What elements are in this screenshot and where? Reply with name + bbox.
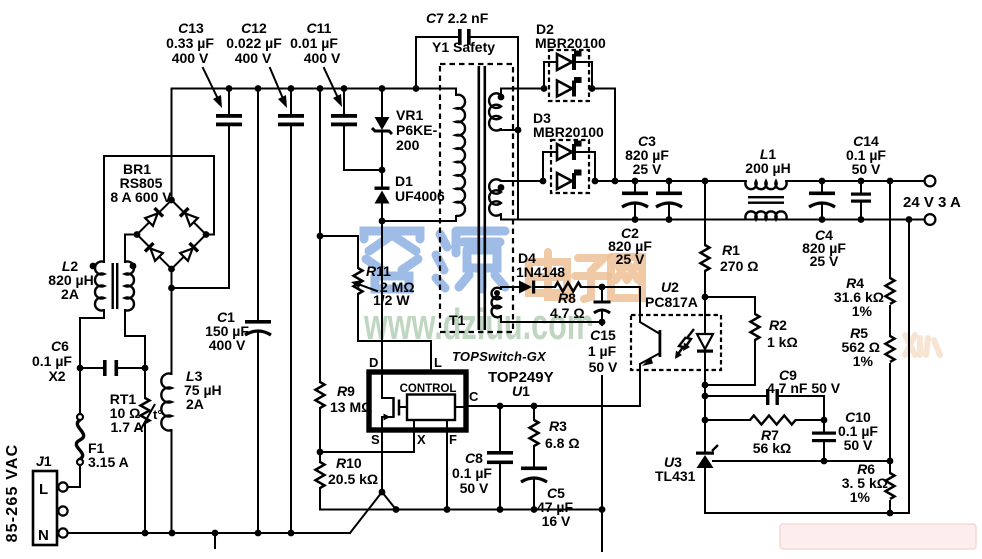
svg-text:C12: C12 [241, 20, 267, 36]
connector J1 [33, 453, 57, 545]
svg-text:PC817A: PC817A [645, 294, 698, 310]
junction bias return [599, 319, 606, 326]
junction clamp mid [379, 167, 386, 174]
rectifier D2 [535, 21, 615, 181]
svg-text:200 µH: 200 µH [745, 160, 790, 176]
wire cathode chain [704, 385, 706, 452]
junction bus C13 [226, 85, 233, 92]
thermistor RT1 [110, 368, 163, 533]
resistor R5 [842, 325, 895, 369]
svg-text:0.33 µF: 0.33 µF [166, 35, 214, 51]
svg-text:C11: C11 [307, 20, 332, 36]
svg-text:R8: R8 [558, 290, 576, 306]
capacitor C11 [290, 20, 382, 170]
svg-text:1.7 A: 1.7 A [111, 419, 144, 435]
svg-text:F: F [449, 432, 457, 447]
junction X tap [317, 449, 324, 456]
terminal circle mid [58, 506, 67, 515]
svg-text:MBR20100: MBR20100 [535, 35, 606, 51]
capacitor C10 [812, 409, 878, 461]
wire N terminal to bottom rail [68, 532, 350, 534]
wire primary bottom [382, 216, 456, 221]
resistor R4 [834, 275, 895, 319]
junction L3 line bottom [169, 530, 176, 537]
svg-text:VR1: VR1 [396, 107, 423, 123]
watermark orange char 电 [529, 252, 569, 297]
svg-text:4.7 Ω: 4.7 Ω [550, 305, 585, 321]
svg-text:400 V: 400 V [235, 50, 272, 66]
junction C10 ref [821, 458, 828, 465]
svg-text:0.022 µF: 0.022 µF [226, 35, 282, 51]
output terminal minus [925, 214, 936, 225]
resistor R6 [842, 461, 895, 505]
junction BR1 minus [168, 285, 175, 292]
svg-text:1N4148: 1N4148 [516, 264, 565, 280]
svg-text:56 kΩ: 56 kΩ [753, 440, 791, 456]
capacitor C4 [802, 178, 846, 269]
transformer bias winding [492, 287, 602, 322]
junction D1 bottom primary return [379, 218, 386, 225]
watermark blue char 容 [364, 231, 420, 289]
svg-text:D1: D1 [395, 173, 413, 189]
junction S rail [393, 506, 400, 513]
junction F rail [444, 506, 451, 513]
wire L terminal to fuse [68, 466, 80, 487]
svg-text:X: X [417, 432, 426, 447]
output terminal plus [925, 176, 936, 187]
opto phototransistor [640, 315, 661, 370]
svg-text:400 V: 400 V [304, 50, 341, 66]
wire drain line [381, 221, 383, 372]
junction C6 left [77, 365, 84, 372]
capacitor C2 [608, 178, 682, 267]
svg-text:C13: C13 [178, 20, 204, 36]
capacitor C5 [521, 446, 573, 529]
svg-text:25 V: 25 V [810, 253, 839, 269]
svg-text:1/2 W: 1/2 W [373, 292, 410, 308]
terminal circle N [58, 528, 67, 537]
svg-text:20.5 kΩ: 20.5 kΩ [328, 471, 378, 487]
svg-text:1%: 1% [850, 489, 871, 505]
junction bus C11 [341, 85, 348, 92]
svg-text:25 V: 25 V [616, 251, 645, 267]
junction S fork [379, 489, 386, 496]
junction divider top [887, 178, 894, 185]
wire return tap down [908, 220, 910, 514]
junction RT1 bottom [142, 530, 149, 537]
svg-text:8 A 600 V: 8 A 600 V [110, 189, 172, 205]
capacitor C13 [166, 20, 242, 126]
junction C7 secondary [515, 127, 522, 134]
shunt regulator U3 TL431 [655, 445, 718, 513]
svg-text:270 Ω: 270 Ω [720, 258, 758, 274]
stub to chassis [214, 533, 216, 548]
transformer core [478, 66, 481, 330]
junction rail C1 [255, 530, 262, 537]
svg-text:0.1 µF: 0.1 µF [452, 465, 492, 481]
resistor R8 [550, 283, 640, 322]
capacitor C14 [846, 133, 886, 223]
bridge rectifier BR1 [110, 161, 209, 272]
svg-text:R9: R9 [337, 383, 355, 399]
resistor R1 [701, 178, 759, 297]
junction C6 right [142, 365, 149, 372]
junction bus clamp [379, 85, 386, 92]
svg-text:50 V: 50 V [589, 359, 618, 375]
svg-text:R11: R11 [366, 263, 391, 279]
svg-text:TL431: TL431 [655, 468, 696, 484]
junction R2 top [702, 294, 709, 301]
wire bias to source rail [601, 322, 603, 510]
svg-text:L: L [39, 481, 48, 498]
watermark orange char 子 [575, 258, 608, 299]
svg-text:50 V: 50 V [460, 480, 489, 496]
watermark orange char 网 [611, 257, 642, 298]
capacitor C1 line [205, 89, 271, 534]
svg-text:P6KE-: P6KE- [396, 122, 438, 138]
wire divider chain [889, 181, 891, 513]
wire fuse to C6 node [79, 368, 81, 413]
svg-text:R3: R3 [549, 418, 567, 434]
svg-text:C8: C8 [465, 450, 483, 466]
wire S pin fork [350, 430, 396, 533]
svg-text:UF4006: UF4006 [395, 188, 445, 204]
junction C15 top [599, 284, 606, 291]
wire output rail [595, 180, 924, 182]
svg-text:50 V: 50 V [844, 437, 873, 453]
transformer primary winding [456, 89, 465, 216]
optocoupler U2 [631, 279, 721, 370]
svg-text:U2: U2 [661, 279, 679, 295]
resistor R11 [320, 236, 431, 341]
wire HV bus [172, 88, 457, 90]
TOPSwitch U1 [369, 372, 466, 430]
svg-text:4.7 nF 50 V: 4.7 nF 50 V [767, 380, 841, 396]
svg-text:L: L [434, 355, 442, 370]
svg-text:2A: 2A [61, 286, 79, 302]
transformer secondary winding upper [489, 89, 544, 131]
wire C pin line [466, 370, 640, 406]
wire line-sense vertical [319, 89, 321, 383]
capacitor C7 [416, 10, 518, 130]
svg-text:U1: U1 [512, 383, 530, 399]
inductor L1 [745, 146, 790, 220]
svg-text:S: S [371, 432, 380, 447]
diode D1 [375, 170, 446, 221]
junction source rail end [599, 506, 606, 513]
svg-text:D: D [369, 355, 378, 370]
resistor R10 [316, 452, 603, 510]
junction R6 bottom [887, 510, 894, 517]
wire L pin [430, 341, 432, 372]
capacitor C9 [705, 367, 841, 420]
watermark blue char 源 [436, 231, 505, 289]
inductor L3 [161, 288, 221, 533]
capacitor C12 [226, 20, 304, 533]
svg-text:TOPSwitch-GX: TOPSwitch-GX [452, 349, 547, 364]
svg-text:25 V: 25 V [633, 161, 662, 177]
terminal circle L [58, 482, 67, 491]
svg-text:C7 2.2 nF: C7 2.2 nF [426, 10, 489, 26]
transformer T1 box [440, 64, 513, 332]
svg-text:C15: C15 [590, 327, 616, 343]
resistor R2 [705, 297, 798, 385]
svg-text:1%: 1% [853, 353, 874, 369]
junction bus C1 [255, 85, 262, 92]
diode D4 [516, 250, 565, 294]
svg-text:400 V: 400 V [209, 337, 246, 353]
svg-text:1 µF: 1 µF [588, 343, 617, 359]
capacitor C3 [622, 133, 669, 223]
junction C9 tap [702, 393, 709, 400]
wire secondary bottom rail [705, 512, 909, 514]
junction bus sense line [317, 85, 324, 92]
svg-text:T1: T1 [449, 312, 466, 328]
opto light arrows [675, 329, 694, 359]
svg-text:400 V: 400 V [172, 50, 209, 66]
capacitor C15 [594, 287, 611, 322]
svg-text:1%: 1% [852, 303, 873, 319]
svg-text:X2: X2 [48, 368, 65, 384]
resistor R9 [316, 382, 373, 452]
watermark pink box bottom right [780, 524, 976, 549]
wire TL431 ref line [713, 460, 890, 462]
junction ref divider [887, 458, 894, 465]
svg-text:13 MΩ: 13 MΩ [330, 399, 372, 415]
inductor L2 common-mode choke [48, 156, 214, 368]
svg-text:Y1 Safety: Y1 Safety [432, 39, 495, 55]
junction R7 C10 [821, 417, 828, 424]
rectifier D3 [533, 110, 604, 193]
svg-text:C: C [469, 389, 479, 404]
capacitor C6 [32, 338, 145, 384]
label C15 [585, 326, 623, 375]
wire BR1 minus down [171, 269, 173, 288]
svg-text:C6: C6 [51, 338, 69, 354]
svg-text:R1: R1 [722, 242, 740, 258]
wire C13 bottom link [172, 127, 230, 288]
resistor R7 [705, 416, 824, 457]
TVS VR1 [372, 89, 438, 154]
svg-text:MBR20100: MBR20100 [533, 124, 604, 140]
junction R7 tap [702, 417, 709, 424]
svg-text:0.01 µF: 0.01 µF [290, 35, 338, 51]
resistor R3 [530, 403, 580, 451]
svg-text:24 V 3 A: 24 V 3 A [903, 194, 961, 211]
svg-text:CONTROL: CONTROL [400, 383, 457, 395]
svg-text:N: N [38, 527, 49, 544]
wire X pin [320, 430, 414, 452]
junction LED cathode [702, 382, 709, 389]
svg-text:50 V: 50 V [852, 161, 881, 177]
svg-text:R10: R10 [336, 455, 362, 471]
svg-text:85-265 VAC: 85-265 VAC [4, 444, 21, 543]
transformer secondary winding lower [489, 179, 924, 219]
svg-text:3.15 A: 3.15 A [88, 454, 129, 470]
watermark orange fragment right [905, 335, 940, 355]
stub below rail [601, 510, 603, 552]
junction D2 output [612, 178, 619, 185]
svg-text:2A: 2A [186, 396, 204, 412]
junction rail C12 [288, 530, 295, 537]
junction R11 tap [317, 233, 324, 240]
svg-text:6.8 Ω: 6.8 Ω [545, 435, 580, 451]
junction stub [212, 530, 219, 537]
svg-text:200: 200 [396, 137, 420, 153]
svg-text:0.1 µF: 0.1 µF [32, 353, 72, 369]
svg-text:R2: R2 [769, 317, 787, 333]
svg-text:J1: J1 [36, 453, 52, 469]
junction bus C12 [288, 85, 295, 92]
junction bus C7 [413, 85, 420, 92]
wire F pin [446, 430, 448, 510]
fuse F1 [76, 414, 128, 470]
capacitor C8 [452, 403, 513, 513]
wire C7 line to return rail [517, 130, 519, 220]
svg-text:1 kΩ: 1 kΩ [767, 334, 798, 350]
junction return tap [906, 216, 913, 223]
opto LED [697, 297, 713, 385]
svg-text:16 V: 16 V [542, 513, 571, 529]
wire BR1 plus to bus [171, 89, 173, 201]
wire VR1 to junction [381, 133, 383, 170]
